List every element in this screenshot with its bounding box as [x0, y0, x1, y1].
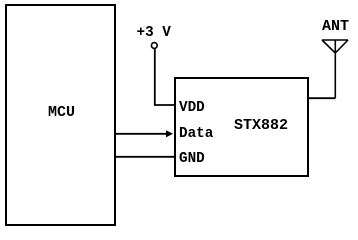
- +3 V supply terminal circle: [151, 43, 157, 49]
- svg-text:STX882: STX882: [234, 117, 288, 134]
- antenna symbol: [322, 40, 348, 98]
- wire: +3V terminal down and right to VDD pin: [155, 49, 176, 105]
- svg-text:MCU: MCU: [48, 104, 75, 121]
- wire: MCU to GND pin: [115, 156, 175, 158]
- wire: STX882 ANT pin to antenna: [307, 97, 335, 99]
- svg-text:GND: GND: [179, 151, 205, 167]
- svg-text:ANT: ANT: [322, 18, 349, 35]
- MCU block: [6, 5, 115, 225]
- STX882 module U1: [175, 78, 308, 176]
- arrowhead on Data wire: [166, 130, 173, 137]
- svg-text:+3 V: +3 V: [137, 25, 172, 41]
- svg-text:Data: Data: [179, 126, 214, 142]
- wire: MCU to Data pin: [115, 133, 167, 135]
- svg-text:VDD: VDD: [179, 100, 205, 116]
